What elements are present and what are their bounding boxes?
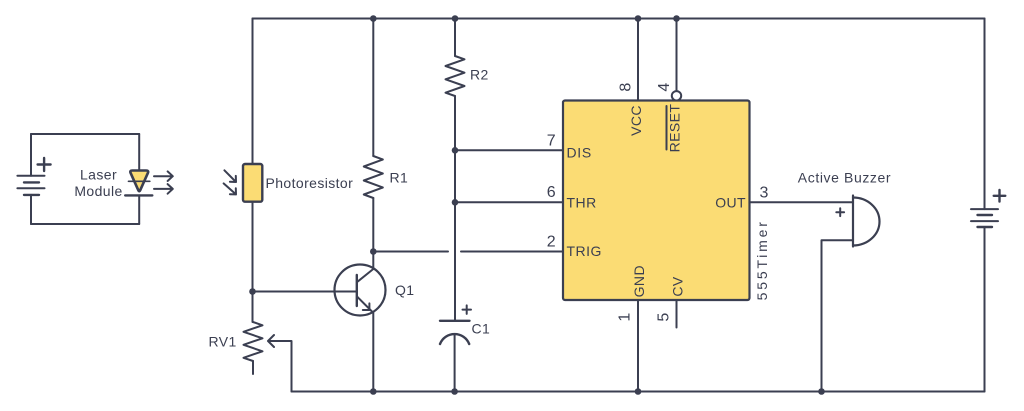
wire R2 top lead — [454, 19, 456, 57]
wire C1 bottom lead — [454, 335, 456, 392]
wire base (junction to Q1) — [253, 291, 357, 293]
light arrow from LED 1 — [154, 171, 173, 181]
light arrow from LED 2 — [154, 184, 173, 194]
svg-text:RV1: RV1 — [209, 333, 237, 349]
wire laser loop left-top lead — [30, 134, 32, 176]
svg-text:OUT: OUT — [715, 194, 746, 210]
svg-text:DIS: DIS — [567, 145, 592, 161]
svg-text:Laser: Laser — [80, 167, 117, 183]
svg-text:2: 2 — [547, 233, 556, 250]
wire R1 top lead — [372, 19, 374, 157]
node emitter / bottom rail — [370, 388, 377, 395]
battery BT1 (laser module supply) — [17, 158, 50, 195]
wire top rail — [253, 18, 985, 20]
svg-text:3: 3 — [760, 185, 769, 202]
wire LED cathode lead — [138, 195, 140, 224]
svg-text:4: 4 — [656, 82, 673, 91]
wire OUT pin 3 — [750, 201, 854, 203]
node top rail / pin 4 — [673, 15, 680, 22]
capacitor C1 — [440, 305, 471, 344]
wire left vertical (top rail to photoresistor) — [252, 19, 254, 165]
transistor Q1 — [335, 265, 386, 316]
wire R2 bottom to C1 top — [454, 96, 456, 321]
svg-text:5: 5 — [655, 312, 672, 321]
svg-text:THR: THR — [567, 194, 597, 210]
wire CV pin 5 stub — [676, 300, 678, 328]
light arrow to photoresistor 1 — [224, 170, 236, 182]
wire TRIG pin 2 (left part) — [373, 251, 448, 253]
svg-text:TRIG: TRIG — [567, 243, 602, 259]
svg-text:Active Buzzer: Active Buzzer — [798, 169, 891, 185]
wire laser loop bottom — [31, 223, 139, 225]
svg-text:Q1: Q1 — [395, 282, 414, 298]
node GND / bottom rail — [635, 388, 642, 395]
node top rail / R2 — [452, 15, 459, 22]
wire LED anode lead — [138, 134, 140, 171]
label Laser Module — [74, 167, 122, 199]
resistor R1 — [364, 156, 383, 198]
LED D1 (laser diode) — [125, 171, 152, 196]
wire right edge bottom — [984, 227, 986, 392]
wire photoresistor to base junction — [252, 202, 254, 322]
wire right edge top — [984, 19, 986, 210]
resistor R2 — [446, 56, 465, 96]
wire bottom rail — [292, 391, 985, 393]
svg-text:R2: R2 — [470, 67, 489, 83]
RESET overbar — [666, 106, 668, 150]
photoresistor LDR1 — [243, 164, 262, 202]
svg-text:C1: C1 — [472, 321, 491, 337]
wire RESET pin 4 — [676, 19, 678, 92]
svg-text:555Timer: 555Timer — [754, 219, 770, 300]
wire R1 bottom lead to collector junction — [372, 198, 374, 252]
IC 555 timer body — [563, 101, 750, 301]
node THR junction — [452, 199, 459, 206]
svg-text:Module: Module — [74, 183, 122, 199]
wire Q1 collector lead — [372, 252, 374, 270]
wire laser loop top — [31, 133, 139, 135]
wire buzzer negative to bottom rail — [822, 240, 854, 391]
svg-text:Photoresistor: Photoresistor — [266, 175, 354, 191]
svg-text:R1: R1 — [390, 170, 409, 186]
node buzzer / bottom rail — [818, 388, 825, 395]
svg-text:VCC: VCC — [628, 105, 644, 136]
node DIS junction — [452, 147, 459, 154]
wire RV1 bottom stub — [252, 361, 254, 374]
wire VCC pin 8 — [637, 19, 639, 101]
wire Q1 emitter lead to bottom rail — [372, 312, 374, 392]
svg-text:CV: CV — [670, 276, 686, 297]
battery BT2 (main supply) — [971, 190, 1005, 227]
node C1 / bottom rail — [451, 388, 458, 395]
buzzer BZ1 — [836, 196, 879, 247]
wire GND pin 1 to bottom rail — [637, 300, 639, 392]
svg-text:RESET: RESET — [667, 104, 683, 153]
wire RV1 wiper to bottom rail — [268, 335, 292, 392]
svg-text:6: 6 — [547, 184, 556, 201]
pin 4 inverter bubble — [672, 91, 681, 100]
wire DIS pin 7 — [455, 149, 563, 151]
pin labels — [567, 104, 771, 301]
potentiometer RV1 — [244, 322, 263, 361]
node top rail / pin 8 — [635, 15, 642, 22]
svg-text:7: 7 — [547, 132, 556, 149]
wire TRIG pin 2 (right part after crossover gap) — [461, 251, 563, 253]
wire THR pin 6 — [455, 201, 563, 203]
svg-text:8: 8 — [618, 82, 635, 91]
svg-text:GND: GND — [631, 265, 647, 297]
svg-text:1: 1 — [617, 312, 634, 321]
node collector/TRIG junction — [370, 248, 377, 255]
wire laser loop left-bottom lead — [30, 195, 32, 224]
node base junction — [249, 288, 256, 295]
light arrow to photoresistor 2 — [224, 183, 236, 194]
node top rail / R1 — [370, 15, 377, 22]
